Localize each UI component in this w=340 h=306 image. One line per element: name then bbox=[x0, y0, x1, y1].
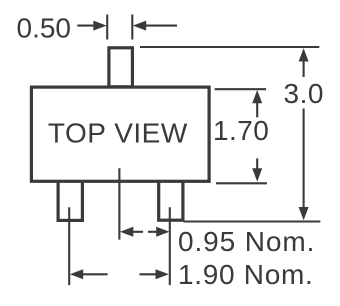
svg-text:0.95 Nom.: 0.95 Nom. bbox=[178, 226, 315, 257]
svg-text:0.50: 0.50 bbox=[17, 13, 72, 44]
svg-text:TOP VIEW: TOP VIEW bbox=[48, 117, 188, 148]
svg-text:1.70: 1.70 bbox=[213, 115, 269, 146]
svg-text:3.0: 3.0 bbox=[284, 78, 324, 109]
svg-text:1.90 Nom.: 1.90 Nom. bbox=[178, 259, 313, 290]
